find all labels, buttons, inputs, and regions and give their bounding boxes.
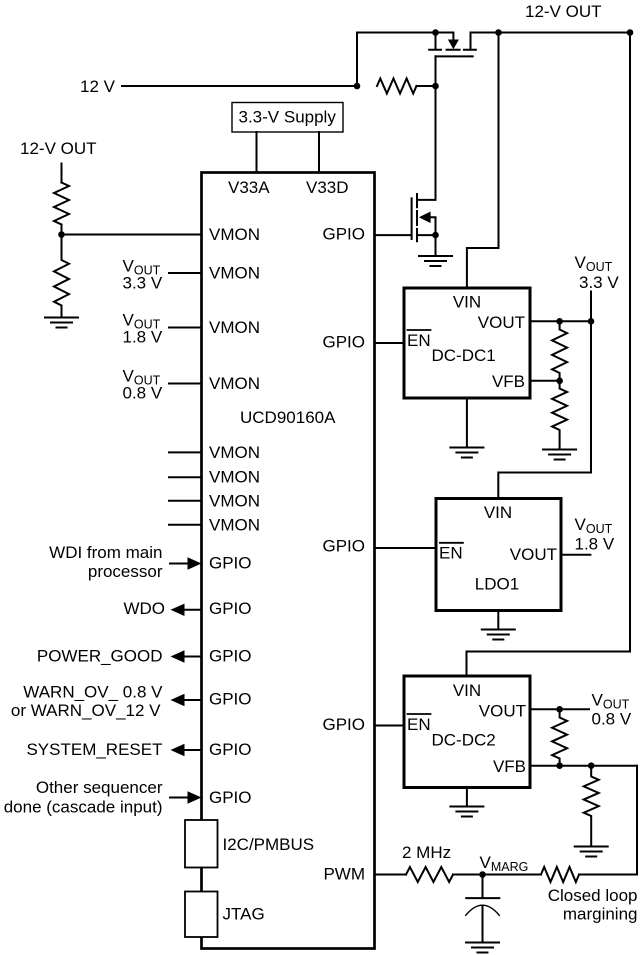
transistor Q1 PMOS drain stub bbox=[471, 33, 499, 49]
node DC-DC1 VFB bbox=[556, 378, 563, 385]
svg-text:VFB: VFB bbox=[493, 757, 526, 776]
resistor DC-DC1 divider lower bbox=[552, 381, 567, 448]
svg-text:GPIO: GPIO bbox=[209, 740, 252, 759]
svg-text:or WARN_OV_12 V: or WARN_OV_12 V bbox=[11, 701, 161, 720]
DC-DC2 box bbox=[404, 676, 530, 788]
transistor Q1 PMOS body wire bbox=[436, 33, 454, 41]
capacitor VMARG flat plate bbox=[466, 897, 499, 899]
transistor Q2 NMOS body wire bbox=[431, 217, 436, 235]
resistor pull-up bbox=[377, 79, 416, 94]
wire WDO tail bbox=[185, 609, 202, 611]
svg-text:VMON: VMON bbox=[209, 492, 260, 511]
svg-text:DC-DC2: DC-DC2 bbox=[432, 731, 496, 750]
svg-text:done (cascade input): done (cascade input) bbox=[4, 798, 163, 817]
svg-text:1.8 V: 1.8 V bbox=[123, 328, 163, 347]
node DC-DC2 VOUT divider tap bbox=[556, 706, 563, 713]
svg-text:Other sequencer: Other sequencer bbox=[36, 778, 163, 797]
wire Q1 gate down bbox=[435, 56, 437, 86]
wire V33D stub bbox=[318, 132, 320, 173]
svg-text:I2C/PMBUS: I2C/PMBUS bbox=[223, 835, 315, 854]
svg-text:VOUT: VOUT bbox=[479, 702, 526, 721]
svg-text:3.3 V: 3.3 V bbox=[123, 274, 163, 293]
svg-text:0.8 V: 0.8 V bbox=[123, 384, 163, 403]
wire VMON 1.8V pin stub bbox=[169, 327, 202, 329]
wire VMON sense bbox=[62, 234, 202, 236]
svg-text:VIN: VIN bbox=[453, 293, 481, 312]
node DC-DC2 VFB tap bbox=[556, 762, 563, 769]
svg-text:VOUT: VOUT bbox=[510, 545, 557, 564]
resistor left divider upper bbox=[54, 183, 69, 225]
svg-text:Closed loop: Closed loop bbox=[548, 886, 638, 905]
wire 3.3V rail to LDO1 VIN bbox=[498, 292, 591, 499]
wire VMON5 pin stub bbox=[169, 451, 202, 453]
svg-text:GPIO: GPIO bbox=[209, 647, 252, 666]
node DC-DC1 VOUT rail bbox=[588, 318, 595, 325]
svg-text:GPIO: GPIO bbox=[322, 715, 365, 734]
node PMOS source bbox=[432, 29, 439, 36]
svg-text:WARN_OV_ 0.8 V: WARN_OV_ 0.8 V bbox=[23, 682, 163, 701]
svg-text:GPIO: GPIO bbox=[209, 690, 252, 709]
svg-text:12-V OUT: 12-V OUT bbox=[20, 139, 97, 158]
svg-text:PWM: PWM bbox=[323, 864, 365, 883]
resistor DC-DC2 divider upper bbox=[552, 709, 567, 765]
svg-text:DC-DC1: DC-DC1 bbox=[432, 346, 496, 365]
node left divider tap bbox=[58, 231, 65, 238]
transistor Q1 PMOS gate bar bbox=[435, 55, 472, 57]
wire DC-DC2 VFB bbox=[530, 765, 637, 767]
svg-text:SYSTEM_RESET: SYSTEM_RESET bbox=[26, 740, 162, 759]
svg-text:VIN: VIN bbox=[453, 681, 481, 700]
svg-text:EN: EN bbox=[407, 331, 431, 350]
wire cap to ground bbox=[482, 907, 484, 943]
transistor Q2 NMOS channel segments bbox=[416, 194, 418, 241]
arrow SYSTEM_RESET output bbox=[171, 744, 185, 756]
svg-text:V33A: V33A bbox=[228, 178, 270, 197]
arrow WDO output bbox=[171, 604, 185, 616]
svg-text:V33D: V33D bbox=[306, 178, 349, 197]
svg-text:2 MHz: 2 MHz bbox=[402, 843, 451, 862]
resistor 2 MHz bbox=[406, 867, 453, 882]
3.3-V Supply box bbox=[232, 103, 343, 133]
wire LDO1 ground stub bbox=[497, 611, 499, 630]
resistor left divider lower bbox=[54, 235, 69, 318]
I2C/PMBUS port box bbox=[185, 820, 218, 868]
wire DC-DC2 ground stub bbox=[466, 788, 468, 807]
overbar DC-DC2 EN bbox=[407, 713, 432, 715]
node 12V junction bbox=[354, 83, 361, 90]
svg-text:GPIO: GPIO bbox=[322, 537, 365, 556]
transistor Q1 PMOS source stub bbox=[435, 33, 437, 49]
arrow cascade input bbox=[188, 791, 202, 803]
wire NMOS drain up to gate node bbox=[417, 86, 436, 200]
svg-text:WDO: WDO bbox=[123, 599, 165, 618]
wire VFB margin down bbox=[579, 766, 637, 875]
svg-text:VMON: VMON bbox=[209, 318, 260, 337]
svg-text:LDO1: LDO1 bbox=[475, 575, 519, 594]
resistor DC-DC2 divider lower bbox=[584, 766, 599, 847]
wire VMON6 pin stub bbox=[169, 476, 202, 478]
node gate pull-up junction bbox=[432, 83, 439, 90]
overbar DC-DC1 EN bbox=[407, 329, 432, 331]
capacitor VMARG plate top wire bbox=[482, 875, 484, 899]
svg-text:margining: margining bbox=[563, 905, 638, 924]
ground DC-DC2 bbox=[450, 807, 483, 817]
resistor closed-loop margining bbox=[541, 867, 579, 882]
wire up from 12V junction bbox=[357, 33, 436, 87]
svg-text:VMON: VMON bbox=[209, 516, 260, 535]
node right edge top bbox=[627, 29, 634, 36]
wire V33A stub bbox=[256, 132, 258, 173]
wire GPIO to DC-DC1 EN bbox=[375, 342, 405, 344]
transistor Q2 NMOS gate bar bbox=[411, 198, 413, 239]
transistor Q1 PMOS body diode arrow bbox=[448, 40, 459, 50]
op-amp U1 main IC UCD90160A body bbox=[202, 173, 375, 949]
wire GPIO to DC-DC2 EN bbox=[375, 725, 405, 727]
resistor DC-DC1 divider upper bbox=[552, 321, 567, 381]
svg-text:3.3-V Supply: 3.3-V Supply bbox=[239, 107, 337, 126]
svg-text:GPIO: GPIO bbox=[322, 224, 365, 243]
arrow POWER_GOOD output bbox=[171, 650, 185, 662]
JTAG port box bbox=[185, 892, 218, 938]
svg-text:VMON: VMON bbox=[209, 443, 260, 462]
ground VMARG cap bbox=[466, 943, 499, 953]
ground NMOS bbox=[419, 256, 452, 266]
svg-text:JTAG: JTAG bbox=[223, 905, 265, 924]
node VMARG bbox=[479, 871, 486, 878]
svg-text:VMON: VMON bbox=[209, 225, 260, 244]
svg-text:VMON: VMON bbox=[209, 468, 260, 487]
wire VMON 3.3V pin stub bbox=[169, 272, 202, 274]
node DC-DC1 VOUT divider tap bbox=[556, 318, 563, 325]
wire VMON7 pin stub bbox=[169, 500, 202, 502]
svg-text:VFB: VFB bbox=[492, 372, 525, 391]
svg-text:processor: processor bbox=[88, 562, 163, 581]
svg-text:POWER_GOOD: POWER_GOOD bbox=[37, 647, 163, 666]
svg-text:12-V OUT: 12-V OUT bbox=[525, 2, 602, 21]
arrow WDI input bbox=[188, 557, 202, 569]
svg-text:GPIO: GPIO bbox=[209, 788, 252, 807]
wire WARN_OV tail bbox=[185, 699, 202, 701]
wire LDO1 VOUT bbox=[561, 554, 590, 556]
svg-text:VMON: VMON bbox=[209, 264, 260, 283]
wire NMOS source to ground bbox=[435, 235, 437, 256]
capacitor VMARG curved plate bbox=[466, 905, 500, 915]
node 12-V OUT top bbox=[495, 29, 502, 36]
DC-DC1 box bbox=[404, 288, 530, 398]
wire DC-DC1 VFB bbox=[530, 380, 560, 382]
svg-text:GPIO: GPIO bbox=[322, 333, 365, 352]
svg-text:GPIO: GPIO bbox=[209, 553, 252, 572]
wire to VMARG node bbox=[453, 874, 541, 876]
svg-text:EN: EN bbox=[439, 544, 463, 563]
svg-text:WDI from main: WDI from main bbox=[49, 543, 162, 562]
wire POWER_GOOD tail bbox=[185, 656, 202, 658]
transistor Q1 PMOS channel bars bbox=[429, 49, 476, 51]
wire VMON 0.8V pin stub bbox=[169, 383, 202, 385]
LDO1 box bbox=[436, 499, 561, 611]
arrow WARN_OV output bbox=[171, 694, 185, 706]
wire DC-DC1 VOUT bbox=[530, 320, 591, 322]
wire 12-V OUT left stub bbox=[61, 164, 63, 183]
node DC-DC2 VFB margin tap bbox=[588, 762, 595, 769]
wire VMON8 pin stub bbox=[169, 524, 202, 526]
wire DC-DC1 ground stub bbox=[466, 398, 468, 448]
svg-text:VIN: VIN bbox=[484, 503, 512, 522]
node NMOS source bbox=[432, 232, 439, 239]
wire 12V input bbox=[122, 85, 357, 87]
wire DC-DC1 VIN feed bbox=[467, 33, 499, 289]
wire 12-V OUT rail top bbox=[499, 32, 631, 34]
wire PWM out bbox=[375, 874, 407, 876]
svg-text:EN: EN bbox=[407, 715, 431, 734]
svg-text:1.8 V: 1.8 V bbox=[575, 535, 615, 554]
transistor Q2 NMOS body arrow bbox=[419, 212, 431, 224]
wire WDI input bbox=[170, 563, 188, 565]
wire DC-DC2 VOUT bbox=[530, 708, 589, 710]
ground DC-DC2 divider bbox=[575, 847, 608, 857]
wire cascade input bbox=[170, 797, 188, 799]
transistor Q2 NMOS source wire bbox=[417, 234, 436, 236]
wire GPIO to LDO1 EN bbox=[375, 547, 437, 549]
wire I2C to JTAG link bbox=[201, 868, 203, 892]
ground left divider bbox=[45, 318, 78, 328]
svg-text:VOUT: VOUT bbox=[478, 313, 525, 332]
svg-text:0.8 V: 0.8 V bbox=[592, 710, 632, 729]
svg-text:UCD90160A: UCD90160A bbox=[240, 408, 336, 427]
wire GPIO to NMOS gate bbox=[375, 234, 412, 236]
wire left divider tap bbox=[61, 225, 63, 235]
svg-text:12 V: 12 V bbox=[80, 77, 116, 96]
ground LDO1 bbox=[482, 630, 515, 640]
ground DC-DC1 divider bbox=[543, 450, 576, 460]
ground DC-DC1 bbox=[450, 448, 483, 458]
overbar LDO1 EN bbox=[439, 542, 464, 544]
svg-text:VMON: VMON bbox=[209, 374, 260, 393]
wire resistor right to gate node bbox=[417, 85, 436, 87]
wire SYSTEM_RESET tail bbox=[185, 749, 202, 751]
svg-text:3.3 V: 3.3 V bbox=[579, 273, 619, 292]
wire right rail down to DC-DC2 VIN bbox=[467, 33, 631, 677]
svg-text:GPIO: GPIO bbox=[209, 599, 252, 618]
